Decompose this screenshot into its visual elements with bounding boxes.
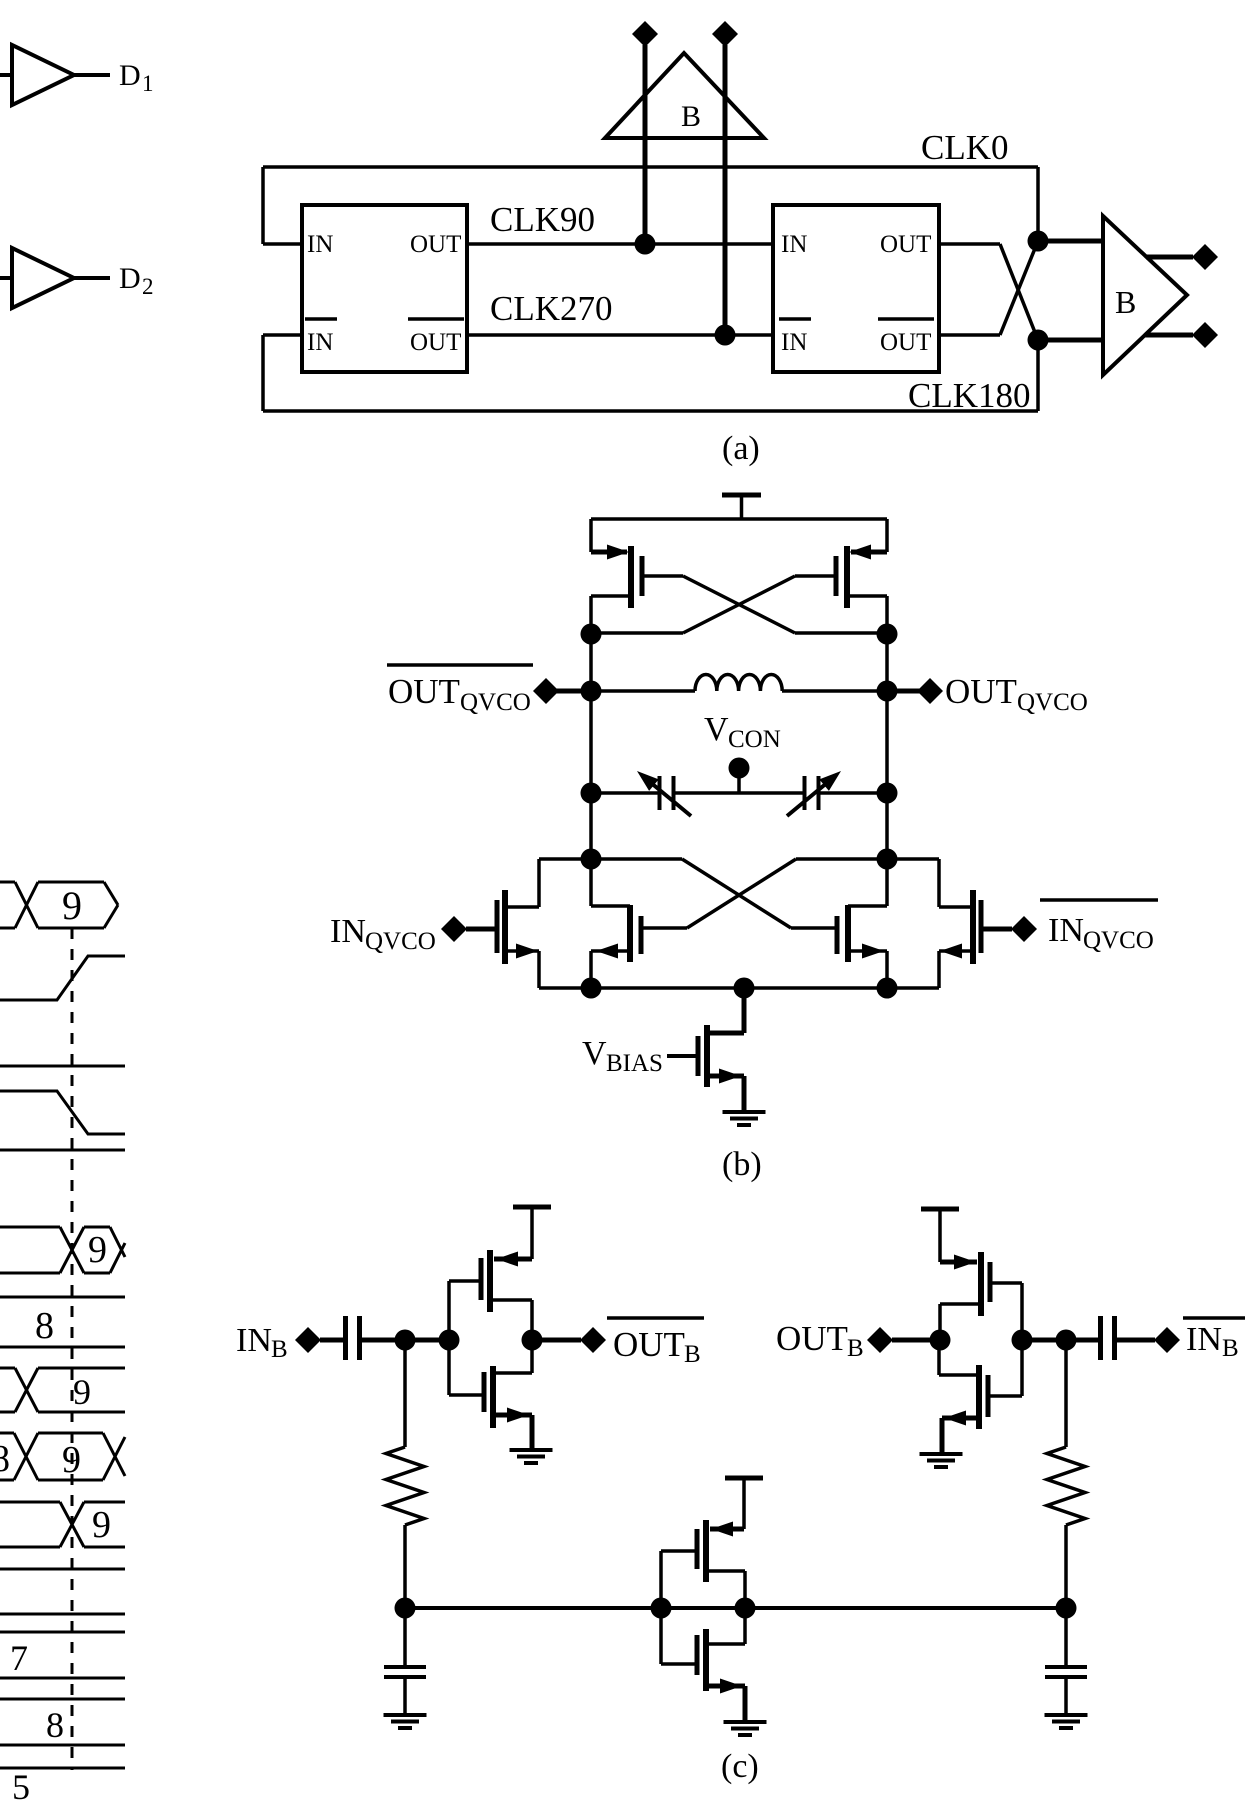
svg-text:1: 1 (142, 71, 154, 96)
svg-text:OUT: OUT (880, 329, 931, 356)
svg-text:B: B (1115, 284, 1136, 320)
svg-text:CON: CON (728, 726, 781, 753)
svg-text:IN: IN (781, 329, 807, 356)
svg-text:(c): (c) (721, 1748, 759, 1785)
svg-text:IN: IN (1048, 912, 1084, 949)
svg-text:2: 2 (142, 274, 154, 299)
svg-text:8: 8 (0, 1438, 10, 1480)
svg-text:B: B (847, 1335, 864, 1362)
svg-text:BIAS: BIAS (606, 1050, 663, 1077)
svg-text:IN: IN (330, 913, 366, 950)
svg-text:5: 5 (12, 1767, 30, 1807)
svg-text:8: 8 (46, 1705, 64, 1745)
svg-text:D: D (119, 59, 141, 92)
svg-text:CLK90: CLK90 (490, 200, 595, 239)
svg-text:QVCO: QVCO (1017, 689, 1088, 716)
svg-text:(b): (b) (722, 1146, 762, 1183)
svg-text:B: B (684, 1341, 701, 1368)
svg-text:IN: IN (236, 1322, 272, 1359)
svg-text:OUT: OUT (776, 1319, 848, 1358)
svg-text:V: V (582, 1035, 607, 1072)
svg-text:OUT: OUT (880, 231, 931, 258)
svg-text:IN: IN (307, 231, 333, 258)
svg-text:V: V (704, 711, 729, 748)
svg-text:OUT: OUT (945, 672, 1017, 711)
svg-text:CLK270: CLK270 (490, 289, 613, 328)
svg-text:9: 9 (62, 883, 82, 928)
svg-text:9: 9 (73, 1372, 91, 1412)
svg-text:D: D (119, 262, 141, 295)
svg-text:CLK0: CLK0 (921, 128, 1009, 167)
svg-text:IN: IN (781, 231, 807, 258)
svg-text:IN: IN (1186, 1321, 1222, 1358)
svg-text:9: 9 (62, 1439, 81, 1481)
svg-text:B: B (1222, 1335, 1239, 1362)
svg-text:B: B (681, 100, 701, 133)
svg-text:OUT: OUT (410, 231, 461, 258)
svg-text:CLK180: CLK180 (908, 376, 1031, 415)
svg-text:QVCO: QVCO (365, 928, 436, 955)
svg-text:9: 9 (88, 1229, 107, 1271)
svg-text:OUT: OUT (410, 329, 461, 356)
svg-text:9: 9 (92, 1504, 111, 1546)
svg-text:(a): (a) (722, 430, 760, 467)
svg-text:QVCO: QVCO (1083, 927, 1154, 954)
svg-text:B: B (271, 1336, 288, 1363)
svg-text:OUT: OUT (613, 1325, 685, 1364)
svg-text:8: 8 (35, 1305, 54, 1347)
svg-text:7: 7 (10, 1638, 28, 1678)
svg-text:QVCO: QVCO (460, 689, 531, 716)
svg-text:OUT: OUT (388, 672, 460, 711)
svg-text:IN: IN (307, 329, 333, 356)
